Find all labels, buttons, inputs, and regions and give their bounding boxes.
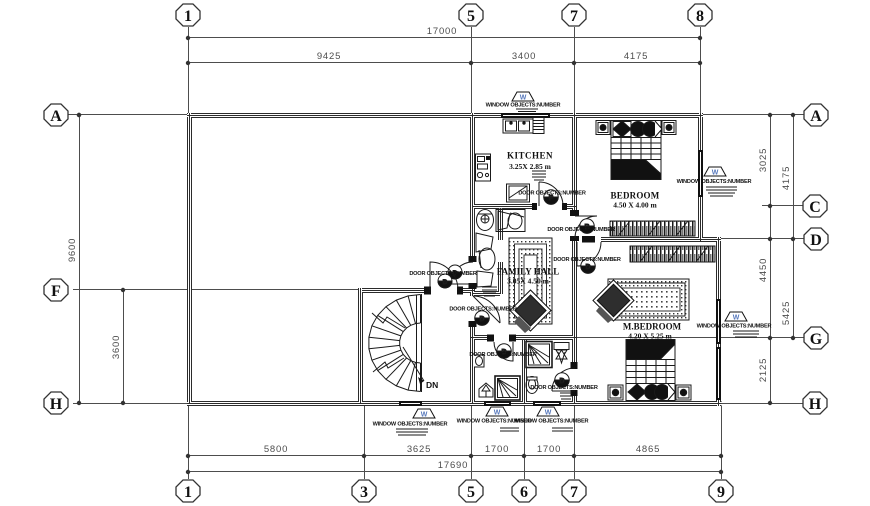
door jambs bath1 door: [487, 335, 494, 342]
svg-text:1700: 1700: [485, 444, 509, 455]
WALL LAYER: [187, 113, 722, 406]
window outer right wall upper: [716, 299, 721, 344]
bath2 wc: [526, 377, 538, 394]
svg-text:M.BEDROOM: M.BEDROOM: [623, 322, 682, 332]
svg-text:A: A: [810, 108, 822, 125]
svg-text:KITCHEN: KITCHEN: [507, 151, 553, 161]
svg-text:8: 8: [696, 8, 704, 25]
svg-text:7: 7: [570, 484, 578, 501]
svg-text:9600: 9600: [67, 238, 78, 262]
FURNITURE LAYER: [369, 118, 563, 393]
mbedroom bed pillow diamond: [593, 280, 634, 323]
WINDOW SYMBOLS: [413, 92, 747, 419]
stair DN arrow: [403, 347, 424, 381]
svg-text:7: 7: [570, 8, 578, 25]
mbedroom bed carpet: [608, 279, 689, 320]
svg-text:D: D: [443, 279, 448, 286]
window kitchen top wall: [501, 113, 550, 118]
grid bubble D right: [804, 228, 828, 250]
svg-text:17000: 17000: [427, 26, 457, 37]
garage to hall door arc: [448, 262, 473, 284]
grid bubble A left: [44, 104, 68, 126]
window bedroom right wall: [698, 150, 703, 197]
kitchen sink counter: [503, 119, 533, 133]
svg-text:3.25X 2.85 m: 3.25X 2.85 m: [509, 162, 551, 171]
svg-text:17690: 17690: [438, 460, 468, 471]
grid bubble 7 bottom: [562, 480, 586, 502]
toilet1 vent hatch: [482, 287, 497, 296]
bedroom bed nightstand right: [662, 121, 676, 135]
family hall carpet diamond: [510, 290, 551, 333]
grid bubble 3 bottom: [352, 480, 376, 502]
svg-text:H: H: [50, 396, 63, 413]
svg-text:WINDOW OBJECTS:NUMBER: WINDOW OBJECTS:NUMBER: [677, 179, 752, 185]
grid line A horizontal: [68, 114, 190, 116]
grid line 7 vertical: [574, 27, 576, 116]
grid line D horizontal: [719, 238, 804, 240]
family hall carpet: [509, 238, 552, 324]
window symbol kitchen top: [512, 92, 534, 102]
svg-text:3400: 3400: [512, 51, 536, 62]
svg-text:WINDOW OBJECTS:NUMBER: WINDOW OBJECTS:NUMBER: [373, 422, 448, 428]
grid line G horizontal: [576, 337, 804, 339]
svg-text:DOOR OBJECTS:NUMBER: DOOR OBJECTS:NUMBER: [530, 385, 598, 391]
svg-text:D: D: [810, 232, 822, 249]
svg-text:4450: 4450: [758, 258, 769, 282]
bedroom bed nightstand left: [596, 121, 610, 135]
grid bubble A right: [804, 104, 828, 126]
mbedroom closet hatch: [630, 246, 715, 262]
grid bubble 6 bottom: [512, 480, 536, 502]
bedroom closet hatch: [610, 221, 695, 236]
svg-text:4.50 X 4.00 m: 4.50 X 4.00 m: [613, 201, 657, 210]
kitchen riser marks: [532, 171, 546, 180]
svg-text:3025: 3025: [758, 148, 769, 172]
dimension line 9425 3400 4175: [188, 62, 700, 64]
svg-text:WINDOW OBJECTS:NUMBER: WINDOW OBJECTS:NUMBER: [514, 419, 589, 425]
svg-text:W: W: [545, 410, 552, 417]
kitchen fridge left: [476, 154, 491, 181]
bath2 shower: [526, 342, 552, 368]
svg-text:6: 6: [520, 484, 528, 501]
grid line F horizontal: [73, 289, 362, 291]
svg-text:FAMILY HALL: FAMILY HALL: [497, 267, 559, 277]
svg-text:2125: 2125: [758, 358, 769, 382]
window symbol bath2 bottom: [537, 407, 559, 417]
mbedroom nightstand left: [608, 385, 623, 400]
svg-text:4.20 X 5.25 m: 4.20 X 5.25 m: [628, 332, 672, 341]
right dimension line 3025 4450 2125: [770, 115, 772, 403]
bedroom bed quilt grid: [611, 138, 661, 160]
svg-text:3600: 3600: [111, 335, 122, 359]
svg-text:5: 5: [467, 484, 475, 501]
svg-text:W: W: [520, 95, 527, 102]
leader hatch kitchen window: [516, 109, 538, 112]
mbedroom bottom bed quilt grid: [626, 360, 675, 384]
svg-text:C: C: [809, 199, 821, 216]
kitchen door arc: [539, 182, 563, 206]
svg-text:G: G: [810, 331, 823, 348]
bath1 heater: [479, 383, 493, 397]
window bath2 bottom wall: [533, 401, 561, 406]
svg-text:5: 5: [467, 8, 475, 25]
svg-text:DOOR OBJECTS:NUMBER: DOOR OBJECTS:NUMBER: [409, 271, 477, 277]
grid bubble H left: [44, 392, 68, 414]
left dimension line 3600: [123, 290, 125, 403]
svg-text:W: W: [712, 170, 719, 177]
grid bubble G right: [804, 327, 828, 349]
bath2 riser marks: [560, 393, 572, 399]
svg-text:1: 1: [184, 8, 192, 25]
kitchen stove hatch: [533, 118, 544, 134]
svg-text:DOOR OBJECTS:NUMBER: DOOR OBJECTS:NUMBER: [469, 352, 537, 358]
window symbol bath1 bottom: [486, 407, 508, 417]
grid bubble 1 bottom: [176, 480, 200, 502]
leader hatch stair window: [396, 429, 428, 435]
svg-text:H: H: [809, 396, 822, 413]
bottom dimension line 17690: [188, 471, 721, 473]
window outer right wall lower: [716, 347, 721, 400]
grid line 1 vertical: [188, 27, 190, 116]
hall door arc grid5: [473, 296, 500, 325]
door jambs grid5 doors: [469, 256, 477, 262]
grid line 3 vertical: [364, 404, 366, 479]
svg-text:DN: DN: [426, 380, 438, 390]
mbedroom bottom bed pillows: [626, 384, 675, 401]
kitchen table: [507, 184, 530, 202]
leader hatch mbedroom window: [733, 331, 759, 337]
svg-text:5800: 5800: [264, 444, 288, 455]
svg-text:3: 3: [360, 484, 368, 501]
grid bubble 5 bottom: [459, 480, 483, 502]
toilet1 wc: [477, 210, 494, 231]
door jambs kitchen door: [532, 203, 537, 210]
svg-text:DOOR OBJECTS:NUMBER: DOOR OBJECTS:NUMBER: [553, 257, 621, 263]
grid bubble H right: [803, 392, 827, 414]
window symbol mbedroom right: [725, 312, 747, 322]
svg-text:WINDOW OBJECTS:NUMBER: WINDOW OBJECTS:NUMBER: [697, 324, 772, 330]
svg-text:F: F: [51, 283, 61, 300]
door jambs bath2 door: [571, 362, 578, 369]
door jambs stair door: [424, 287, 431, 295]
right dimension line 4175 5425: [793, 115, 795, 338]
wall outline all segments: [187, 113, 722, 406]
grid bubble 8 top: [688, 4, 712, 26]
window bath1 bottom wall: [484, 401, 511, 406]
svg-text:D: D: [585, 264, 590, 271]
svg-text:D: D: [479, 316, 484, 323]
left dimension line 9600: [79, 115, 81, 403]
grid line 8 vertical: [700, 27, 702, 116]
TEXT LAYER: [373, 103, 772, 436]
DIMENSION TEXT: [67, 26, 792, 471]
bedroom door arc: [575, 216, 597, 238]
svg-text:DOOR OBJECTS:NUMBER: DOOR OBJECTS:NUMBER: [547, 227, 615, 233]
mbedroom door arc: [577, 242, 601, 273]
svg-text:DOOR OBJECTS:NUMBER: DOOR OBJECTS:NUMBER: [518, 191, 586, 197]
svg-text:W: W: [421, 412, 428, 419]
bath1 basin: [474, 355, 484, 367]
svg-text:4175: 4175: [781, 166, 792, 190]
window symbol stair bottom: [413, 409, 435, 419]
bedroom bed blanket: [611, 160, 661, 180]
grid line 9 vertical: [721, 406, 723, 479]
door jamb mbedroom door: [582, 236, 595, 243]
FURNITURE LAYER 2: [474, 121, 715, 401]
GRID AND DIMENSION LAYER: [68, 27, 804, 479]
grid bubble 5 top: [459, 4, 483, 26]
spiral staircase: [369, 294, 424, 392]
svg-text:DOOR OBJECTS:NUMBER: DOOR OBJECTS:NUMBER: [449, 307, 517, 313]
svg-text:3625: 3625: [407, 444, 431, 455]
leader hatch bedroom window: [706, 187, 737, 196]
svg-text:4175: 4175: [624, 51, 648, 62]
mbedroom bottom bed blanket: [626, 340, 675, 360]
window symbol bedroom right: [704, 167, 726, 177]
grid bubble F left: [44, 279, 68, 301]
svg-text:A: A: [50, 108, 62, 125]
grid bubble 7 top: [562, 4, 586, 26]
stair break line upper: [372, 313, 405, 328]
grid line 5 vertical: [471, 27, 473, 116]
svg-text:BEDROOM: BEDROOM: [611, 191, 660, 201]
svg-text:WINDOW OBJECTS:NUMBER: WINDOW OBJECTS:NUMBER: [486, 103, 561, 109]
toilet1 basin unit: [496, 210, 525, 232]
window stair bottom wall: [399, 401, 422, 406]
svg-text:5425: 5425: [781, 301, 792, 325]
svg-text:1: 1: [184, 484, 192, 501]
junction dot A-left: [77, 113, 81, 117]
svg-text:9: 9: [717, 484, 725, 501]
svg-text:1700: 1700: [537, 444, 561, 455]
grid line 6 vertical: [524, 404, 526, 479]
grid line C horizontal: [762, 205, 803, 207]
grid line H horizontal: [73, 403, 188, 405]
door jambs bedroom door: [570, 210, 579, 216]
leader hatch bath2 window: [552, 428, 573, 431]
svg-text:4865: 4865: [636, 444, 660, 455]
svg-text:3.05X 4.50 m: 3.05X 4.50 m: [507, 277, 549, 286]
svg-text:D: D: [559, 378, 564, 385]
bottom dimension line 5800 3625 1700 1700 4865: [188, 455, 721, 457]
bath1 door arc: [494, 342, 513, 361]
svg-text:W: W: [494, 410, 501, 417]
svg-text:W: W: [733, 315, 740, 322]
grid bubble C right: [803, 195, 827, 217]
toilet1 bathtub: [476, 233, 495, 287]
dimension line 17000: [188, 37, 700, 39]
mbedroom nightstand right: [676, 385, 691, 400]
bath1 shower: [495, 376, 520, 400]
stair break line lower: [373, 358, 404, 372]
bath2 geyser: [554, 343, 569, 364]
grid bubble 1 top: [176, 4, 200, 26]
bath2 door arc: [552, 368, 575, 391]
bedroom bed headboard pillows: [611, 121, 662, 138]
grid bubble 9 bottom: [709, 480, 733, 502]
leader hatch bath1 window: [500, 428, 519, 431]
stair door arc: [430, 262, 458, 290]
svg-text:9425: 9425: [317, 51, 341, 62]
